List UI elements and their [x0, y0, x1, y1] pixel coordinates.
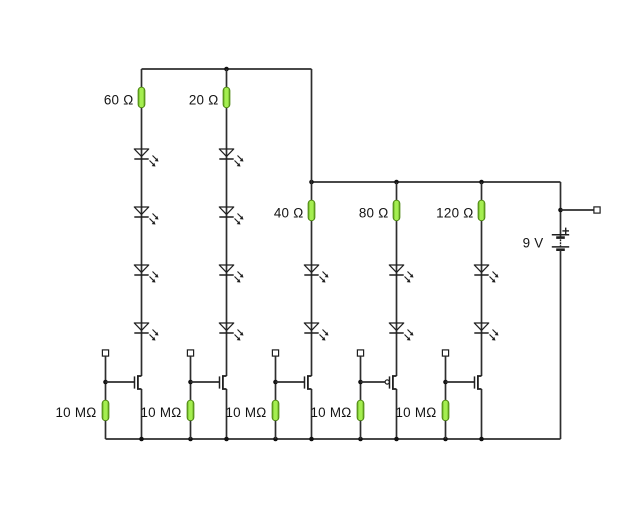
resistor R2 series 20 Ω [223, 87, 230, 108]
svg-text:10 MΩ: 10 MΩ [140, 405, 181, 420]
wire: R10 to bottom rail [445, 421, 447, 439]
svg-text:10 MΩ: 10 MΩ [395, 405, 436, 420]
terminal: input post 2 [187, 350, 193, 356]
wire: column 5 source to bottom rail [481, 389, 483, 439]
LED D7 (column 2) [219, 265, 243, 283]
wire: middle rail (columns 3-5 to battery) [312, 181, 561, 183]
svg-text:20 Ω: 20 Ω [189, 93, 219, 108]
resistor R4 series 80 Ω [393, 200, 400, 221]
LED D10 (column 3) [304, 323, 328, 341]
svg-text:10 MΩ: 10 MΩ [55, 405, 96, 420]
resistor R5 series 120 Ω [478, 200, 485, 221]
node: bottom rail / column 5 source [479, 437, 484, 442]
node: junction middle rail / column 4 [394, 180, 399, 185]
wire: column 1 drain branch [141, 69, 143, 376]
terminal: input post 3 [272, 350, 278, 356]
LED D13 (column 5) [474, 265, 498, 283]
svg-text:40 Ω: 40 Ω [274, 206, 304, 221]
resistor R8 pull-down 10 MΩ [272, 400, 279, 421]
wire: output tap lead [561, 209, 595, 211]
node: bottom rail / gate divider 5 [443, 437, 448, 442]
LED D1 (column 1) [134, 149, 158, 167]
LED D9 (column 3) [304, 265, 328, 283]
node: gate node 5 [443, 380, 448, 385]
transistor Q3 n-channel MOSFET [305, 376, 312, 389]
LED D3 (column 1) [134, 265, 158, 283]
node: bottom rail / column 4 source [394, 437, 399, 442]
node: bottom rail / gate divider 2 [188, 437, 193, 442]
LED D4 (column 1) [134, 323, 158, 341]
terminal: input post 4 [357, 350, 363, 356]
terminal: input post 1 [102, 350, 108, 356]
wire: gate lead 1 [106, 381, 135, 383]
wire: gate lead 5 [446, 381, 475, 383]
LED D2 (column 1) [134, 207, 158, 225]
node: bottom rail / column 3 source [309, 437, 314, 442]
LED D11 (column 4) [389, 265, 413, 283]
node: bottom rail / column 2 source [224, 437, 229, 442]
transistor Q1 n-channel MOSFET [135, 376, 142, 389]
svg-text:80 Ω: 80 Ω [359, 206, 389, 221]
wire: column 2 source to bottom rail [226, 389, 228, 439]
wire: column 5 drain branch [481, 182, 483, 376]
wire: R8 to bottom rail [275, 421, 277, 439]
terminal: output post (battery +) [594, 207, 600, 213]
wire: column 4 drain branch [396, 182, 398, 376]
node: junction middle rail / column 5 [479, 180, 484, 185]
LED D8 (column 2) [219, 323, 243, 341]
resistor R3 series 40 Ω [308, 200, 315, 221]
svg-text:120 Ω: 120 Ω [436, 206, 473, 221]
battery B1 9 V [552, 228, 569, 250]
LED D12 (column 4) [389, 323, 413, 341]
svg-text:9 V: 9 V [523, 235, 544, 250]
wire: R7 to bottom rail [190, 421, 192, 439]
wire: column 1 source to bottom rail [141, 389, 143, 439]
wire: gate lead 3 [276, 381, 305, 383]
wire: bottom rail (ground return) [106, 438, 561, 440]
wire: column 3 source to bottom rail [311, 389, 313, 439]
node: bottom rail / column 1 source [139, 437, 144, 442]
wire: battery - down to bottom rail [560, 250, 562, 439]
svg-text:10 MΩ: 10 MΩ [225, 405, 266, 420]
transistor Q4 p-channel MOSFET [385, 376, 396, 389]
wire: input 4 vertical [360, 356, 362, 400]
node: bottom rail / gate divider 3 [273, 437, 278, 442]
wire: gate lead 4 [361, 381, 386, 383]
wire: R9 to bottom rail [360, 421, 362, 439]
svg-text:10 MΩ: 10 MΩ [310, 405, 351, 420]
wire: column 2 drain branch [226, 69, 228, 376]
wire: gate lead 2 [191, 381, 220, 383]
svg-text:60 Ω: 60 Ω [104, 93, 134, 108]
node: gate node 4 [358, 380, 363, 385]
resistor R6 pull-down 10 MΩ [102, 400, 109, 421]
terminal: input post 5 [442, 350, 448, 356]
resistor R9 pull-down 10 MΩ [357, 400, 364, 421]
wire: R6 to bottom rail [105, 421, 107, 439]
wire: top rail (columns 1-3) [142, 68, 312, 70]
wire: input 5 vertical [445, 356, 447, 400]
transistor Q5 n-channel MOSFET [475, 376, 482, 389]
transistor Q2 n-channel MOSFET [220, 376, 227, 389]
LED D14 (column 5) [474, 323, 498, 341]
wire: middle rail corner down to battery + [560, 182, 562, 237]
node: gate node 1 [103, 380, 108, 385]
node: gate node 3 [273, 380, 278, 385]
LED D6 (column 2) [219, 207, 243, 225]
wire: input 1 vertical [105, 356, 107, 400]
wire: input 2 vertical [190, 356, 192, 400]
wire: column 3 drain branch [311, 69, 313, 376]
node: bottom rail / gate divider 4 [358, 437, 363, 442]
resistor R7 pull-down 10 MΩ [187, 400, 194, 421]
node: battery + / output tap [558, 208, 563, 213]
node: junction top rail / column 2 [224, 67, 229, 72]
wire: column 4 source to bottom rail [396, 389, 398, 439]
node: gate node 2 [188, 380, 193, 385]
resistor R10 pull-down 10 MΩ [442, 400, 449, 421]
resistor R1 series 60 Ω [138, 87, 145, 108]
LED D5 (column 2) [219, 149, 243, 167]
node: junction middle rail / column 3 [309, 180, 314, 185]
wire: input 3 vertical [275, 356, 277, 400]
